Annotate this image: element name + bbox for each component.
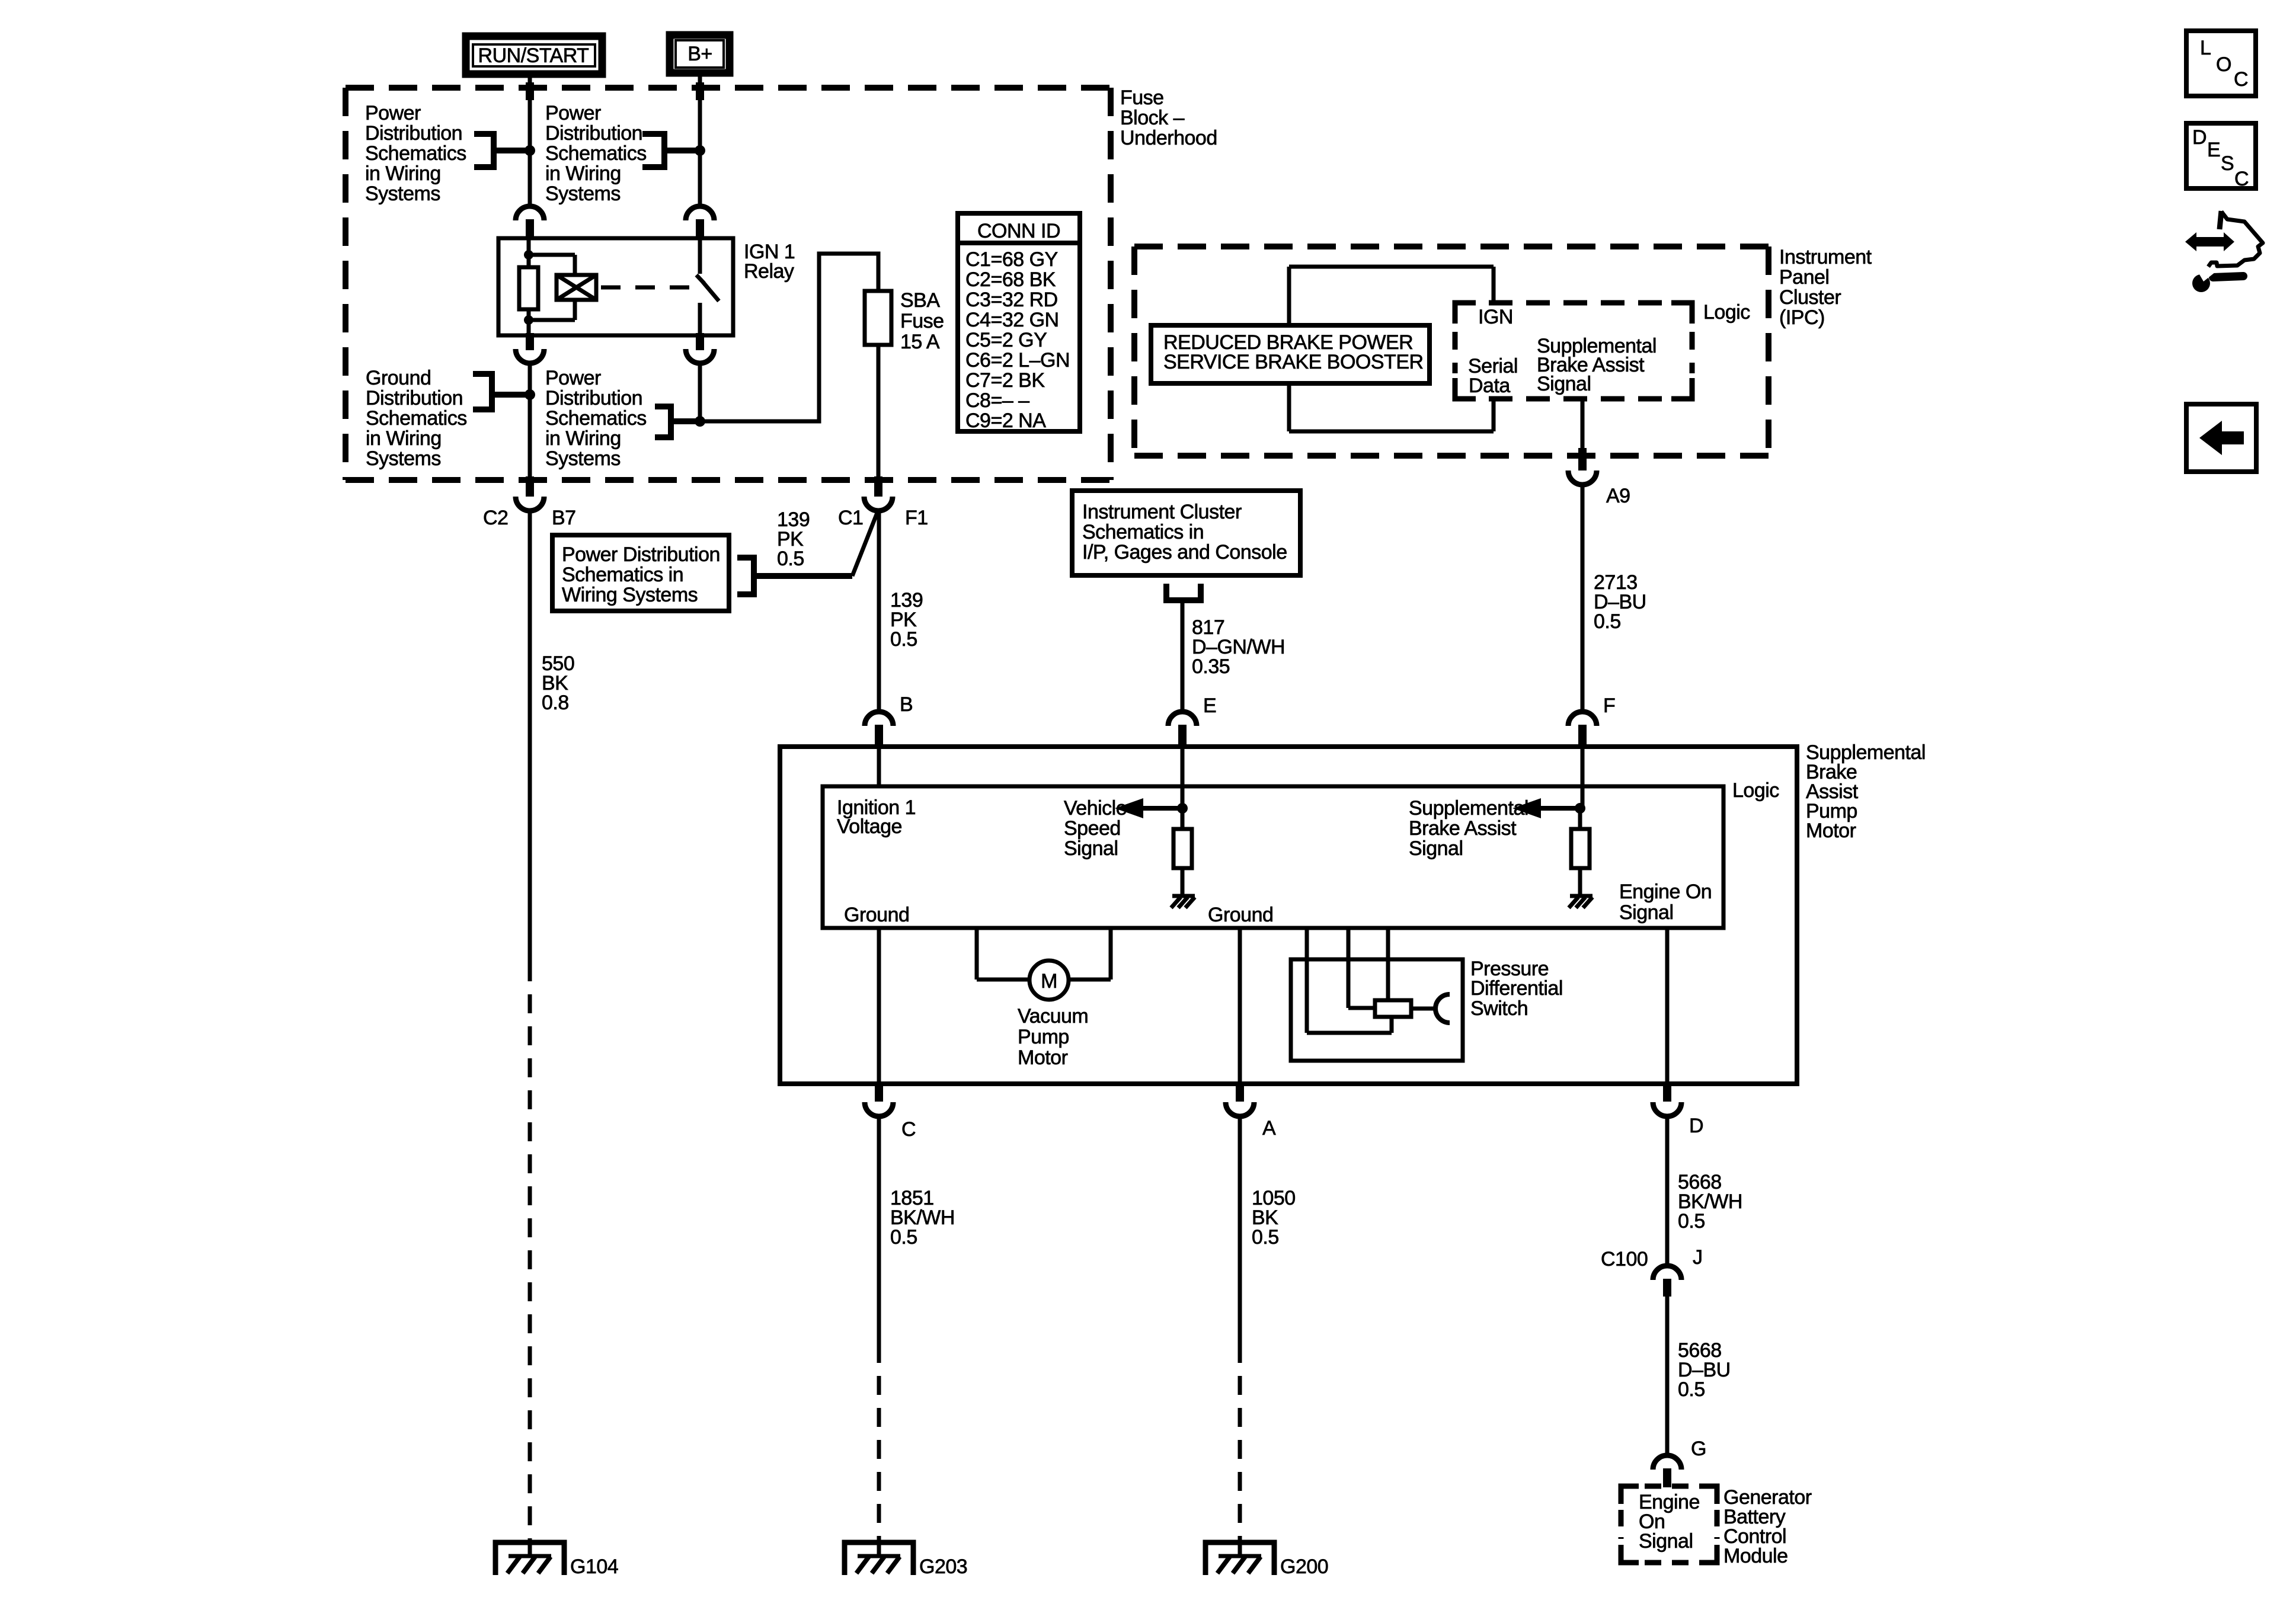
svg-text:C7=2 BK: C7=2 BK [965,369,1045,392]
svg-text:Speed: Speed [1064,817,1121,840]
svg-text:Signal: Signal [1639,1530,1693,1553]
supplemental brake assist pump motor box [780,747,1797,1084]
wire 1050 dashed part to G200 [1238,1344,1242,1542]
svg-text:B7: B7 [552,507,576,529]
svg-text:S: S [2221,152,2234,175]
connector A9 [1568,448,1597,485]
pressure differential switch internals [1307,994,1450,1033]
power reference B+ [670,35,730,73]
svg-text:0.5: 0.5 [890,1226,917,1249]
wire C solid part [877,1116,881,1344]
wire relay left pin down to fuse block edge [528,363,532,479]
connector pin B [865,712,893,747]
svg-text:Systems: Systems [366,447,441,470]
bracket top-middle PDS to B+ wire [642,134,700,167]
svg-text:Logic: Logic [1732,779,1779,802]
svg-text:Logic: Logic [1703,301,1750,324]
svg-text:Ground: Ground [844,904,909,926]
wire F1 down to pin B [877,511,881,713]
wire diagonal to C1/F1 connector [852,511,878,576]
label Vacuum Pump Motor [1018,1005,1088,1069]
svg-text:C2=68 BK: C2=68 BK [965,268,1056,291]
label Ground Distribution Schematics in Wiring Systems [366,367,467,470]
label Pressure Differential Switch [1470,958,1563,1020]
reference box Power Distribution Schematics in Wiring Systems [552,535,729,611]
connector C2/B7 [516,476,544,511]
svg-text:0.5: 0.5 [1678,1378,1705,1401]
node junction below relay right [695,416,705,427]
connector pin D [1653,1083,1681,1116]
svg-text:C8=– –: C8=– – [965,389,1029,412]
connector pin E [1168,712,1197,747]
connector arc above relay right pin [686,206,714,239]
svg-text:in Wiring: in Wiring [545,162,621,185]
svg-text:C1: C1 [838,507,863,529]
wire pin B into logic box [877,747,881,786]
node junction ground distribution [525,389,535,400]
svg-text:E: E [2207,139,2220,161]
svg-text:Systems: Systems [545,447,621,470]
icon wrench [2192,264,2243,292]
wire C2/B7 down (solid part) [528,511,532,962]
svg-text:G203: G203 [919,1555,967,1578]
label Instrument Panel Cluster (IPC) [1779,246,1872,329]
bracket PDS below relay to junction [655,406,700,437]
label Power Distribution Schematics in Wiring Systems (below relay) [545,367,647,470]
svg-text:B+: B+ [687,43,712,65]
svg-text:Wiring Systems: Wiring Systems [562,584,698,606]
icon LOC box [2186,31,2256,96]
svg-text:0.5: 0.5 [777,548,804,570]
chassis ground (vehicle speed) [1171,896,1195,908]
icon DESC box [2186,123,2256,190]
node relay coil top [524,250,533,260]
chassis ground (SBA signal) [1569,896,1593,908]
svg-text:A9: A9 [1606,485,1630,507]
arrow vehicle speed signal [1115,798,1182,818]
svg-text:Power: Power [545,367,601,389]
svg-text:C1=68 GY: C1=68 GY [965,248,1058,271]
svg-text:Systems: Systems [545,183,621,205]
label SBA Fuse 15 A [900,289,944,353]
svg-text:IGN: IGN [1478,306,1513,328]
svg-text:SERVICE BRAKE BOOSTER: SERVICE BRAKE BOOSTER [1163,351,1424,373]
svg-text:Block –: Block – [1120,107,1185,129]
wire 550 BK dashed part down to G104 [528,962,532,1542]
connector pin A [1226,1083,1254,1116]
svg-text:Signal: Signal [1409,837,1463,860]
svg-text:I/P, Gages and Console: I/P, Gages and Console [1082,541,1287,564]
svg-text:Distribution: Distribution [545,122,642,145]
svg-text:C6=2 L–GN: C6=2 L–GN [965,349,1070,372]
reference box Instrument Cluster Schematics [1072,491,1300,575]
wire A9 down to pin F [1581,485,1585,713]
ground G200 [1205,1541,1274,1575]
relay coil winding symbol [529,255,596,320]
svg-text:(IPC): (IPC) [1779,306,1825,329]
vacuum pump motor branch [977,928,1111,980]
svg-text:0.5: 0.5 [890,628,917,651]
svg-text:Schematics: Schematics [365,142,466,165]
svg-text:Data: Data [1469,375,1510,397]
node junction RUN/START wire [525,145,535,156]
connector pin C [865,1083,893,1116]
svg-text:C2: C2 [483,507,508,529]
relay actuation dashed link [601,286,690,290]
svg-text:Ground: Ground [1208,904,1273,926]
wire pin D from logic to box edge [1665,928,1670,1084]
svg-text:0.5: 0.5 [1252,1226,1279,1249]
motor M vacuum pump [1029,961,1069,1000]
svg-text:Relay: Relay [744,260,794,283]
svg-text:Power Distribution: Power Distribution [562,543,720,566]
svg-text:Distribution: Distribution [366,387,463,409]
wire 1851 dashed part to G203 [877,1344,881,1542]
svg-text:Switch: Switch [1470,997,1528,1020]
label wire 1851 BK/WH 0.5 [890,1187,955,1249]
table CONN ID [958,213,1080,432]
svg-text:Signal: Signal [1064,837,1118,860]
svg-text:Ground: Ground [366,367,431,389]
label Generator Battery Control Module [1723,1486,1812,1567]
svg-text:Distribution: Distribution [545,387,642,409]
label IGN 1 Relay [744,241,795,283]
wire SBA signal down from logic box [1581,399,1585,456]
node relay coil bottom [524,315,533,325]
wire relay right pin down to junction [698,363,702,421]
svg-text:Panel: Panel [1779,266,1829,289]
svg-text:0.35: 0.35 [1192,655,1230,678]
svg-text:D: D [2192,126,2207,149]
wire pin A from logic to box edge [1238,928,1242,1084]
svg-text:G: G [1691,1438,1706,1460]
svg-text:O: O [2216,53,2231,76]
svg-text:Schematics in: Schematics in [1082,521,1204,543]
svg-text:Schematics: Schematics [366,407,467,430]
wire B+ down to relay [696,73,704,207]
svg-text:in Wiring: in Wiring [366,427,442,450]
svg-text:D: D [1689,1115,1703,1137]
svg-text:C5=2 GY: C5=2 GY [965,329,1047,351]
svg-text:F: F [1603,694,1615,717]
label Serial Data pin [1468,355,1518,397]
svg-text:Module: Module [1723,1545,1788,1567]
svg-text:Engine On: Engine On [1619,881,1712,903]
ground G203 [845,1541,913,1575]
wire J down to pin G [1665,1297,1670,1455]
connector pin F [1568,712,1597,747]
svg-text:in Wiring: in Wiring [365,162,441,185]
svg-text:C3=32 RD: C3=32 RD [965,289,1058,311]
arrow supplemental brake assist signal [1512,798,1580,818]
connector C1/F1 [864,476,893,511]
svg-text:G200: G200 [1280,1555,1328,1578]
wire RUN/START down to relay [526,74,534,207]
svg-text:Schematics in: Schematics in [562,564,683,586]
wire IPC internal loop [1289,267,1494,431]
connector arc below relay left pin [516,333,544,363]
wire pin E into logic box [1181,747,1185,808]
svg-text:Brake Assist: Brake Assist [1409,817,1517,840]
svg-text:A: A [1262,1117,1276,1140]
instrument panel cluster dashed box [1134,247,1769,456]
svg-text:C100: C100 [1601,1248,1648,1270]
svg-text:J: J [1693,1246,1703,1269]
relay IGN 1 box [498,238,733,335]
label Vehicle Speed Signal [1064,797,1127,860]
label Supplemental Brake Assist Signal (pump) [1409,797,1528,860]
svg-text:C4=32 GN: C4=32 GN [965,309,1059,331]
svg-text:Differential: Differential [1470,977,1563,1000]
label Engine On Signal (generator module) [1639,1491,1700,1553]
node junction SBA signal [1575,803,1585,814]
svg-text:SBA: SBA [900,289,940,312]
wire SBA fuse down to connector C1/F1 [877,345,881,479]
svg-text:C: C [2234,168,2249,190]
label wire 817 D-GN/WH 0.35 [1192,616,1285,678]
svg-text:Voltage: Voltage [837,815,902,838]
relay switch [696,238,719,335]
label wire 139 PK 0.5 (F1 to B) [890,589,923,651]
svg-text:0.5: 0.5 [1594,610,1621,633]
svg-text:0.8: 0.8 [542,692,569,714]
svg-text:F1: F1 [905,507,928,529]
fuse SBA 15A [865,291,891,345]
svg-text:15 A: 15 A [900,331,940,353]
fuse block underhood dashed box [346,88,1111,480]
bracket Ground Distribution to wire [473,374,530,409]
label wire 5668 BK/WH 0.5 [1678,1171,1742,1233]
engine on signal dashed box [1621,1486,1717,1563]
svg-text:C: C [901,1118,916,1141]
label Power Distribution Schematics in Wiring Systems (top left) [365,102,466,205]
label Power Distribution Schematics in Wiring Systems (top middle) [545,102,647,205]
wire pin F into logic box [1581,747,1585,808]
icon diagnostic double arrow [2185,232,2234,251]
svg-text:Instrument Cluster: Instrument Cluster [1082,501,1242,523]
svg-text:Motor: Motor [1806,820,1856,842]
svg-text:E: E [1203,694,1216,717]
svg-text:Distribution: Distribution [365,122,462,145]
label wire 139 PK 0.5 (to power distribution) [777,508,810,570]
label Fuse Block - Underhood [1120,87,1217,149]
label Ignition 1 Voltage [837,796,916,838]
svg-text:Vacuum: Vacuum [1018,1005,1088,1028]
connector pin G [1653,1455,1681,1487]
pressure differential switch box [1291,959,1463,1061]
svg-text:Instrument: Instrument [1779,246,1872,268]
bracket top-left PDS to RUN/START wire [474,134,530,167]
svg-text:C: C [2234,68,2248,91]
label wire 550 BK 0.8 [542,652,574,714]
svg-text:G104: G104 [570,1555,618,1578]
ground G104 [495,1541,564,1575]
wire pin C from logic to box edge [877,928,881,1084]
icon component outline [2208,211,2263,267]
svg-text:RUN/START: RUN/START [478,44,589,67]
node junction B+ wire [695,145,705,156]
svg-text:Fuse: Fuse [1120,87,1164,109]
pressure differential switch stubs [1307,928,1388,1033]
bracket PDS box to wire 139 [737,558,852,594]
svg-text:Power: Power [545,102,601,124]
label wire 2713 D-BU 0.5 [1594,571,1646,633]
label wire 5668 D-BU 0.5 [1678,1339,1731,1401]
svg-text:Motor: Motor [1018,1046,1068,1069]
svg-text:Supplemental: Supplemental [1409,797,1528,820]
svg-text:CONN ID: CONN ID [977,220,1060,242]
svg-text:B: B [900,693,913,716]
svg-text:0.5: 0.5 [1678,1210,1705,1233]
svg-text:Schematics: Schematics [545,407,647,430]
node junction vehicle speed [1177,803,1188,814]
svg-text:Pump: Pump [1018,1026,1069,1048]
svg-text:Signal: Signal [1619,901,1674,924]
svg-text:Cluster: Cluster [1779,286,1841,309]
connector arc above relay left pin [516,206,544,239]
power reference RUN/START [466,36,602,74]
svg-text:M: M [1041,970,1057,993]
relay coil resistor [519,238,538,335]
label Engine On Signal [1619,881,1712,924]
svg-text:Schematics: Schematics [545,142,647,165]
label Supplemental Brake Assist Signal (IPC) [1537,335,1657,395]
svg-text:Systems: Systems [365,183,440,205]
label wire 1050 BK 0.5 [1252,1187,1296,1249]
connector arc below relay right pin [686,333,714,363]
resistor vehicle speed pulldown [1173,808,1192,896]
svg-text:C9=2 NA: C9=2 NA [965,409,1046,432]
wire A solid part [1238,1116,1242,1344]
icon back arrow box [2186,404,2256,472]
wire junction to SBA fuse [700,254,878,421]
svg-text:L: L [2200,37,2211,59]
svg-text:Power: Power [365,102,421,124]
svg-text:Signal: Signal [1537,373,1591,395]
resistor SBA pulldown [1571,808,1590,896]
wire D down to connector C100 [1665,1116,1670,1267]
svg-text:in Wiring: in Wiring [545,427,621,450]
svg-text:Fuse: Fuse [900,310,944,332]
svg-text:Underhood: Underhood [1120,127,1217,149]
connector C100 pin J [1653,1266,1681,1297]
label Supplemental Brake Assist Pump Motor [1806,741,1926,842]
pump logic box [823,786,1723,928]
wire instrument cluster down to pin E [1181,600,1185,713]
connector face bracket under instrument cluster box [1166,584,1201,600]
IPC logic dashed box [1455,303,1692,399]
warning box REDUCED BRAKE POWER SERVICE BRAKE BOOSTER [1151,325,1430,383]
